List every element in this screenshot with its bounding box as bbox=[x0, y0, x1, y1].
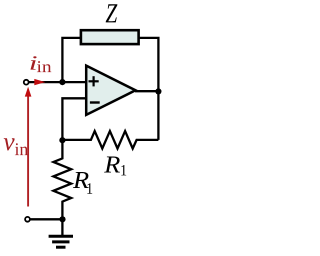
label R1 (horizontal resistor) bbox=[104, 157, 120, 173]
resistor R1 (horizontal, feedback) bbox=[62, 131, 158, 148]
wire: inverting input to left and down to R1 junction bbox=[62, 98, 86, 141]
label v_in bbox=[4, 138, 15, 150]
label R1 (vertical resistor) bbox=[73, 172, 89, 188]
node B (junction dot at output) bbox=[155, 88, 161, 94]
current arrow i_in bbox=[34, 79, 45, 85]
wire: ground stem bbox=[61, 219, 63, 235]
node A (junction dot at input) bbox=[59, 79, 65, 85]
label Z bbox=[106, 4, 118, 22]
impedance Z (box) bbox=[81, 30, 139, 44]
op-amp + input marking bbox=[89, 76, 99, 86]
wire: Z box right to top-right corner down to output junction and R1 row bbox=[139, 38, 159, 140]
input terminal (open circle, top) bbox=[24, 80, 29, 85]
wire: input wire from terminal to op-amp + input bbox=[28, 81, 86, 83]
node D (junction dot at ground wire) bbox=[59, 216, 65, 222]
voltage arrow v_in (line) bbox=[27, 96, 29, 207]
node C (junction dot at R1 corner) bbox=[59, 137, 65, 143]
resistor R1 (vertical, to ground) bbox=[53, 140, 71, 219]
voltage arrow v_in (head) bbox=[25, 87, 32, 97]
label i_in bbox=[31, 56, 37, 69]
op-amp U1 bbox=[86, 66, 135, 115]
input terminal (open circle, bottom) bbox=[25, 217, 30, 222]
wire: left feedback loop (junction A up and right to Z box) bbox=[62, 38, 81, 82]
wire: bottom terminal to ground junction bbox=[28, 218, 62, 220]
wire: op-amp output to junction B bbox=[135, 90, 159, 92]
op-amp - input marking bbox=[90, 101, 100, 103]
ground bbox=[49, 236, 73, 247]
